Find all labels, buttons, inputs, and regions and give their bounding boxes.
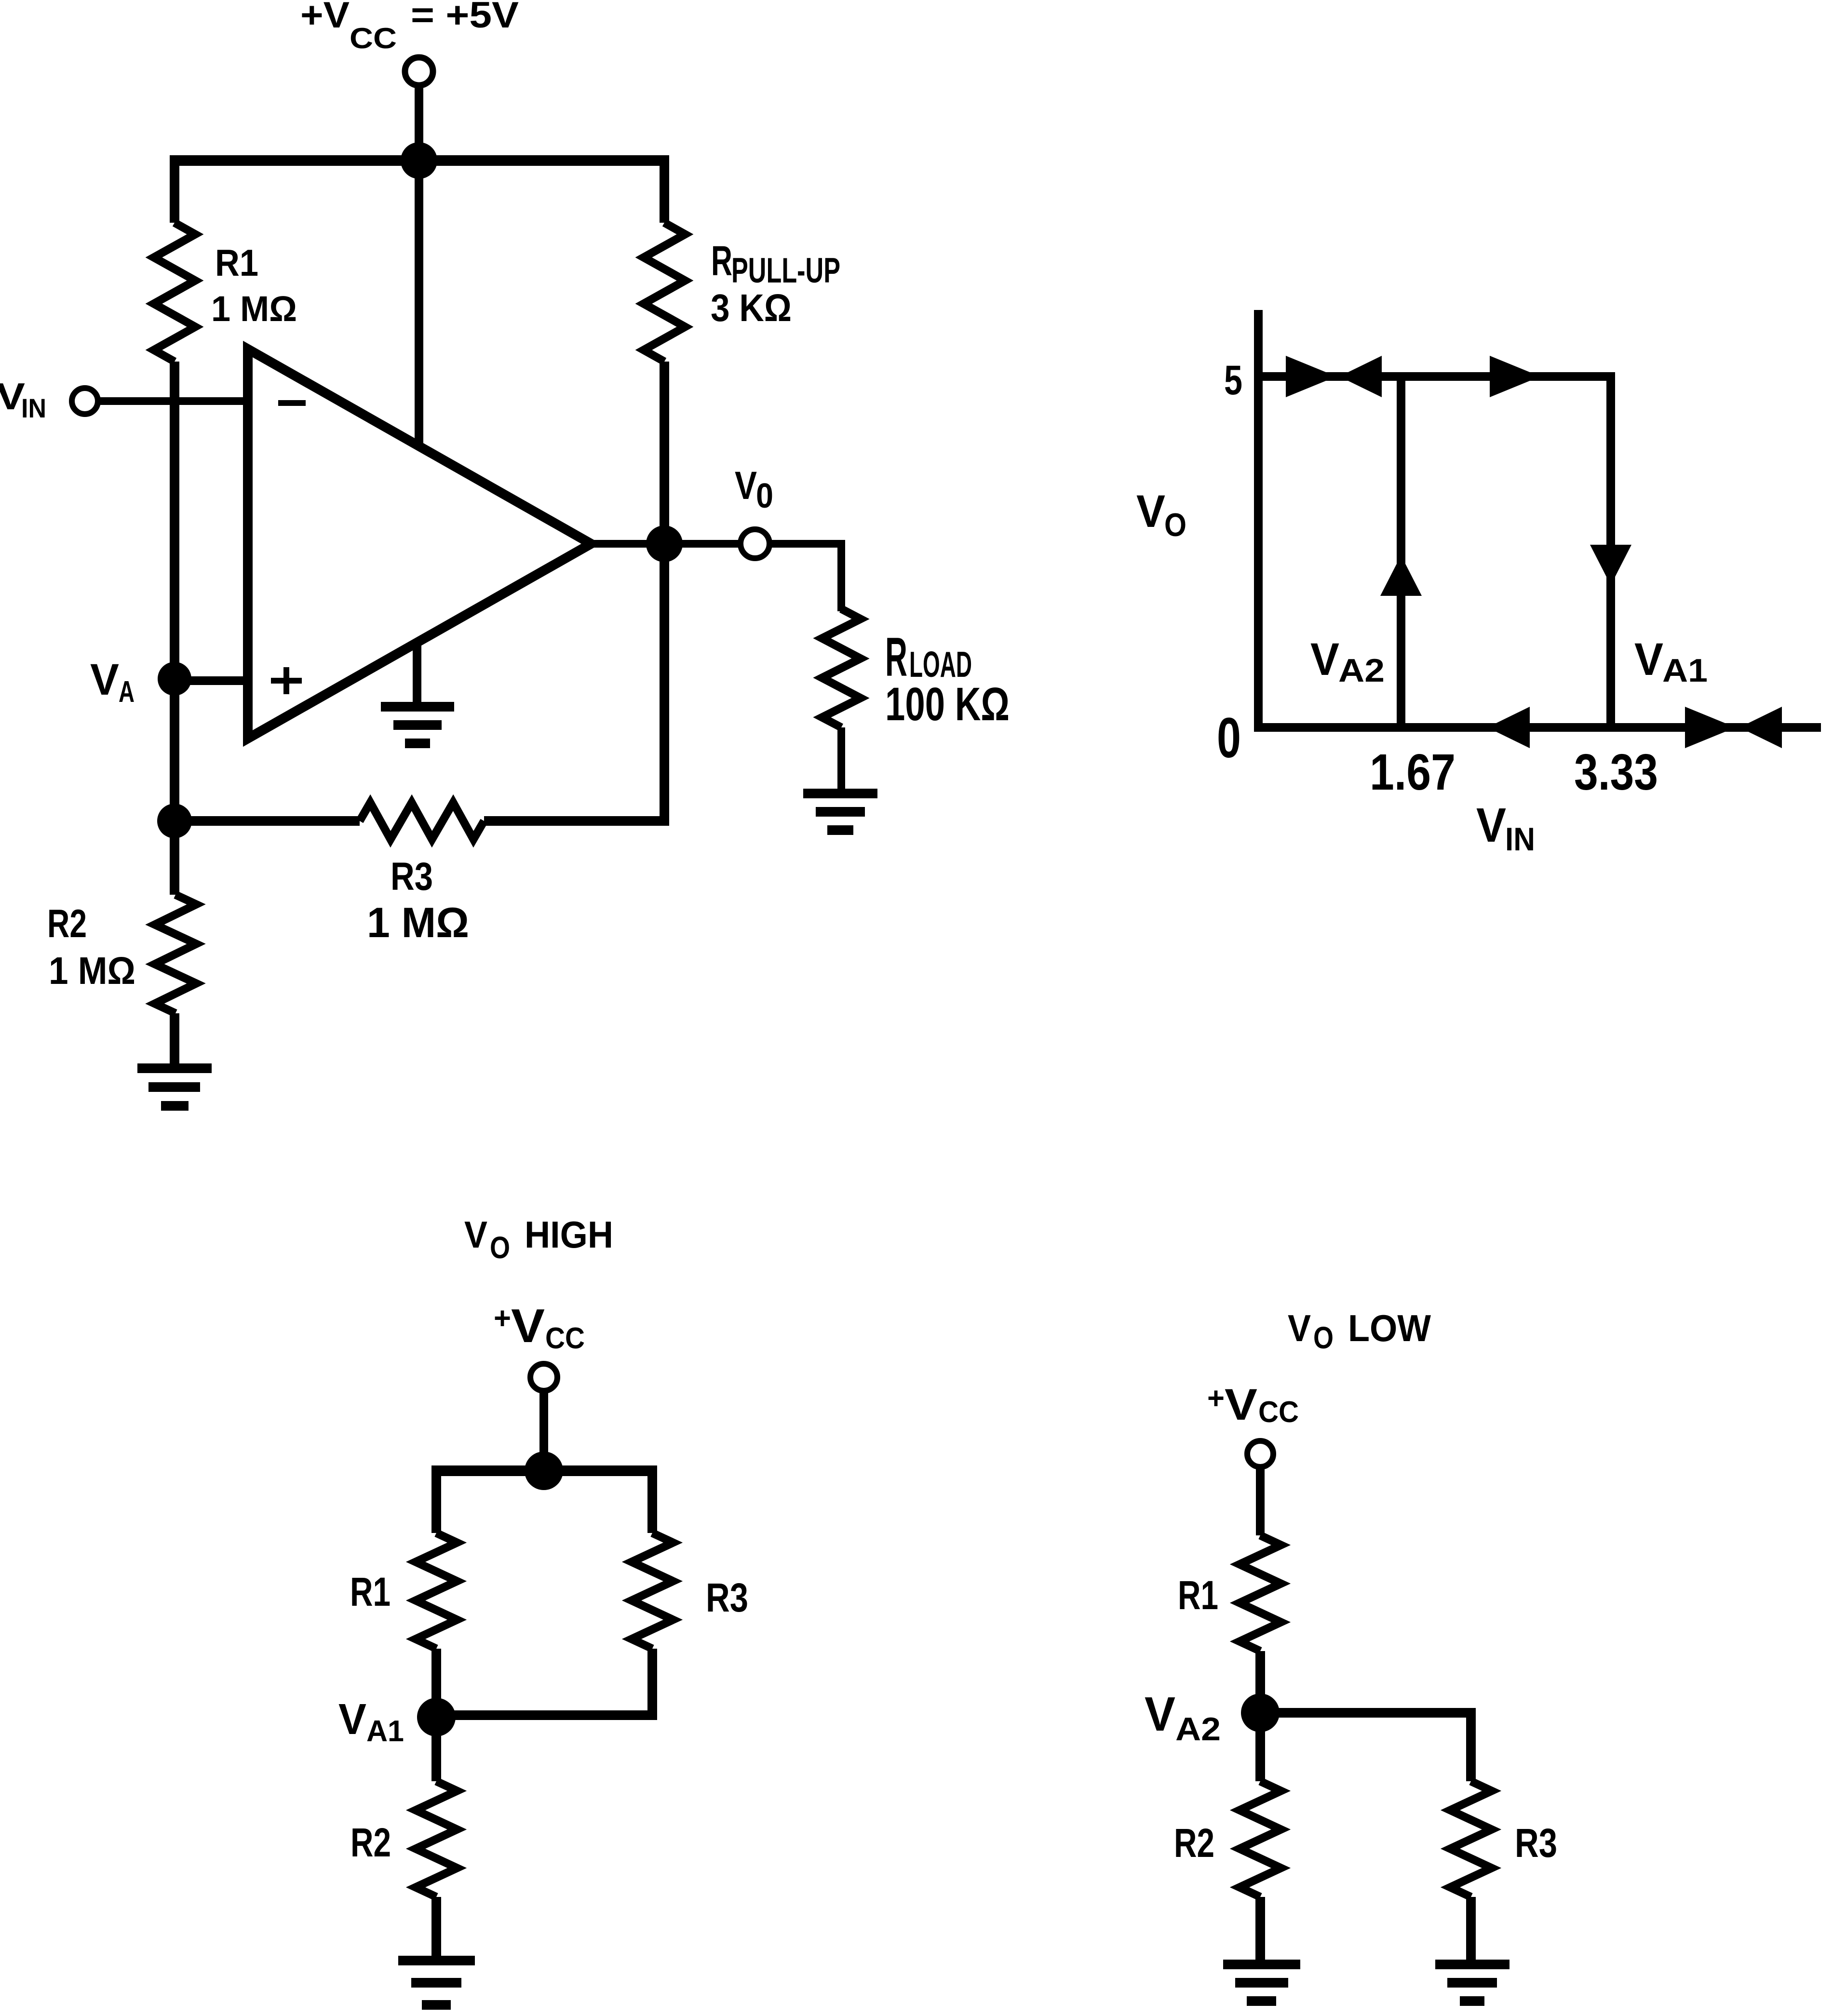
svg-text:O: O [490,1230,510,1265]
power terminal +VCC (VO LOW) [1247,1441,1273,1467]
graph VA1 vertical segment [1606,372,1615,727]
svg-text:PULL-UP: PULL-UP [731,251,840,290]
svg-text:CC: CC [1258,1396,1299,1429]
svg-text:1.67: 1.67 [1370,744,1456,801]
svg-text:1 MΩ: 1 MΩ [367,899,469,946]
svg-text:A2: A2 [1338,652,1385,689]
svg-text:R3: R3 [391,855,433,899]
svg-text:V: V [464,1213,487,1256]
wire VCC rail to op-amp supply [415,161,423,448]
node VCC junction (VO HIGH) [525,1452,563,1490]
terminal VIN [72,388,98,414]
wire top rail (VO HIGH) [431,1465,657,1476]
svg-text:V: V [1310,634,1339,685]
svg-text:V: V [1145,1687,1175,1741]
svg-text:O: O [1313,1320,1334,1355]
wire R3 riser (VO LOW) [1466,1708,1476,1781]
resistor R1 [154,223,195,362]
wire output riser (feedback) [660,544,669,826]
ground R2 (VO LOW) [1223,1960,1300,1969]
svg-text:5: 5 [1224,357,1242,403]
resistor R2 (VO HIGH) [416,1781,457,1897]
wire R3 to output riser [484,816,669,826]
wire VCC top rail [170,155,669,166]
svg-text:+: + [1207,1381,1225,1415]
graph Y axis [1254,310,1263,732]
svg-text:A1: A1 [1662,652,1708,689]
svg-text:V: V [1136,486,1165,537]
svg-text:0: 0 [1217,706,1241,770]
wire left branch to R1 (VO HIGH) [431,1465,441,1533]
svg-text:A: A [119,675,135,709]
graph X axis [1254,723,1821,732]
wire RPULL-UP to output node [660,362,669,544]
svg-text:V: V [90,655,119,704]
power terminal +VCC (VO HIGH) [530,1364,557,1391]
wire R1 to VA1 node (VO HIGH) [431,1649,441,1717]
wire R3 to ground (VO LOW) [1466,1897,1476,1962]
svg-text:R2: R2 [1174,1820,1214,1866]
svg-text:100 KΩ: 100 KΩ [885,678,1010,730]
svg-text:LOW: LOW [1348,1307,1431,1349]
svg-text:1 MΩ: 1 MΩ [211,289,297,329]
resistor R2 [155,895,196,1013]
wire pull-up branch from rail to RPULL-UP [660,155,669,223]
wire VA1 node to R3 branch (VO HIGH) [436,1710,657,1720]
resistor RLOAD [822,609,861,727]
wire op-amp output [587,540,741,548]
svg-text:V: V [735,464,757,508]
resistor R1 (VO LOW) [1240,1535,1281,1651]
node VA [158,662,191,696]
svg-text:= +5V: = +5V [411,0,519,36]
svg-text:A2: A2 [1175,1711,1221,1747]
wire VA to non-inverting input [175,676,248,685]
wire R2 to ground (VO LOW) [1255,1897,1265,1962]
graph arrow left on X axis [1487,707,1530,748]
svg-text:V: V [1476,798,1506,852]
svg-text:V: V [511,1299,545,1352]
wire left branch from rail to R1 [170,155,179,223]
svg-text:+: + [494,1301,511,1335]
svg-text:A1: A1 [366,1715,404,1748]
svg-text:CC: CC [350,22,397,54]
svg-text:IN: IN [21,393,46,423]
wire VA2 to R2 (VO LOW) [1255,1713,1265,1781]
svg-text:CC: CC [545,1322,585,1355]
node VCC rail junction [401,142,437,179]
power terminal +VCC [405,57,433,85]
resistor R3 (VO LOW) [1450,1781,1492,1897]
node feedback junction [157,804,192,838]
svg-text:V: V [1225,1380,1257,1429]
op-amp non-inverting input plus sign [271,678,302,684]
node VA1 (VO HIGH) [417,1698,456,1736]
graph arrow right on top segment toward VA1 [1490,356,1540,397]
svg-text:R3: R3 [1515,1820,1557,1866]
graph arrow up on VA2 segment [1380,555,1422,596]
svg-text:R: R [711,238,732,284]
wire R3 to VA1 wire (VO HIGH) [647,1649,657,1715]
graph VA2 vertical segment [1397,376,1405,727]
svg-text:3 KΩ: 3 KΩ [711,286,792,329]
svg-text:R1: R1 [350,1569,391,1614]
resistor RPULL-UP [644,223,685,362]
wire feedback node to R3 [175,816,360,826]
graph arrow down on VA1 segment [1590,545,1631,585]
svg-text:R3: R3 [706,1575,748,1620]
wire VA2 node to R3 branch (VO LOW) [1260,1708,1476,1718]
svg-text:HIGH: HIGH [525,1213,613,1256]
graph arrow right on top segment (left bowtie) [1286,356,1336,397]
terminal VO [741,529,769,558]
svg-text:IN: IN [1505,821,1535,858]
ground RLOAD [803,789,877,798]
wire RLOAD to ground [837,727,845,792]
wire left branch R1 to feedback node [170,362,179,821]
graph top segment VO=5 [1258,372,1615,381]
svg-text:V: V [1288,1307,1311,1349]
wire R2 to ground (VO HIGH) [431,1897,441,1956]
svg-text:V: V [1634,634,1663,685]
resistor R1 (VO HIGH) [416,1533,457,1649]
wire R2 to ground [170,1013,179,1064]
ground R2 (VO HIGH) [398,1956,475,1965]
resistor R3 [360,803,484,839]
ground R3 (VO LOW) [1435,1960,1510,1969]
op-amp U1 [248,349,591,739]
wire feedback node to R2 [170,821,179,895]
ground op-amp [413,642,421,705]
svg-text:O: O [1164,507,1186,543]
node output junction [646,525,683,562]
svg-text:V: V [338,1695,366,1744]
node VA2 (VO LOW) [1241,1693,1280,1732]
wire VA1 to R2 (VO HIGH) [431,1717,441,1781]
resistor R2 (VO LOW) [1240,1781,1281,1897]
wire R1 to VA2 node (VO LOW) [1255,1651,1265,1713]
wire VIN to inverting input [98,397,248,405]
graph arrow left on X axis (right bowtie) [1739,707,1782,748]
ground R2 [137,1063,212,1073]
graph arrow left on top segment (left bowtie) [1339,356,1382,397]
svg-text:R1: R1 [215,242,258,284]
wire right branch to R3 (VO HIGH) [647,1465,657,1533]
svg-text:R2: R2 [47,901,87,946]
resistor R3 (VO HIGH) [632,1533,673,1649]
svg-text:R2: R2 [350,1820,391,1865]
graph arrow right on X axis (right bowtie) [1685,707,1736,748]
svg-text:+V: +V [300,0,350,36]
svg-text:0: 0 [756,477,773,515]
op-amp inverting input minus sign [278,400,306,406]
wire VO to RLOAD [770,544,841,611]
svg-text:R1: R1 [1178,1572,1218,1618]
svg-text:1 MΩ: 1 MΩ [49,949,135,992]
svg-text:3.33: 3.33 [1574,744,1658,801]
